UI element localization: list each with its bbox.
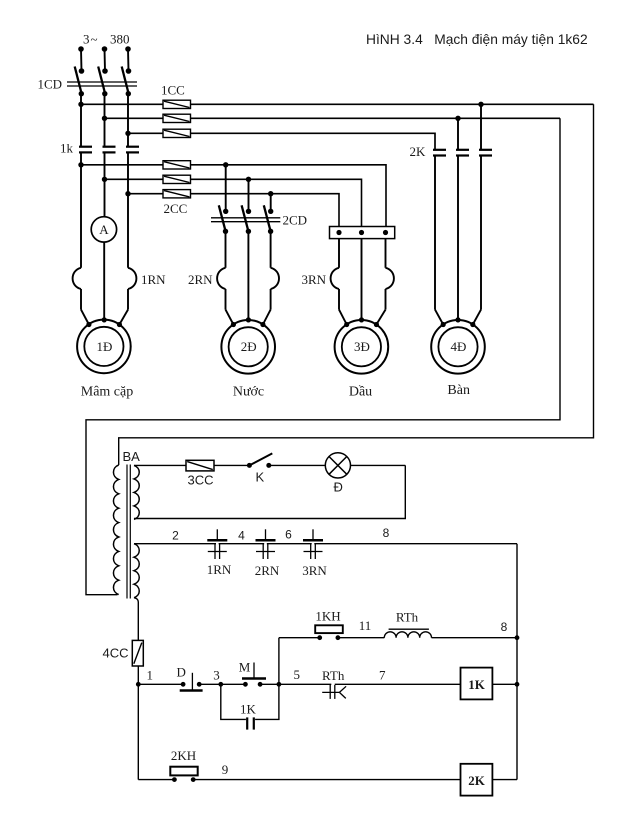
wire main control row: [138, 682, 517, 687]
svg-text:1RN: 1RN: [207, 562, 232, 577]
svg-text:2RN: 2RN: [188, 272, 213, 287]
svg-text:RTh: RTh: [396, 610, 419, 625]
node numbers 1 3 5 7: [147, 667, 386, 683]
ammeter A: [91, 217, 116, 242]
svg-text:~: ~: [91, 32, 98, 47]
supply label 3~ 380: [83, 32, 130, 47]
wire control line 2-4-6-8: [134, 543, 517, 545]
limit switch 1KH: [315, 609, 371, 641]
thermal heater 1RN left: [73, 268, 89, 325]
contact 3RN NC: [302, 529, 327, 578]
wire 4CC to rail node 1: [136, 666, 141, 687]
svg-text:3RN: 3RN: [302, 563, 327, 578]
svg-text:7: 7: [379, 668, 386, 683]
wire phase C upper: [125, 94, 130, 147]
svg-text:8: 8: [501, 620, 508, 634]
svg-text:2RN: 2RN: [255, 563, 280, 578]
wire 2K feeders: [458, 104, 481, 150]
svg-text:11: 11: [359, 618, 372, 633]
wire 2K coil to rail: [492, 779, 517, 781]
fuse 2CC b: [105, 175, 191, 183]
svg-text:M: M: [239, 660, 251, 675]
thermal heater 3RN right: [376, 268, 394, 325]
transformer BA secondary upper: [134, 465, 139, 519]
contactor 2K contacts: [410, 144, 493, 159]
svg-text:6: 6: [285, 528, 292, 542]
svg-text:3CC: 3CC: [187, 473, 213, 488]
svg-text:3: 3: [83, 32, 90, 47]
coil 1K: [461, 668, 493, 700]
wire phase B upper: [102, 94, 107, 147]
supply terminal L3: [125, 46, 131, 74]
thermal heater 2RN left: [188, 268, 233, 325]
svg-text:2KH: 2KH: [171, 748, 196, 763]
svg-text:4CC: 4CC: [102, 646, 128, 661]
wire outer frame to BA primary top: [119, 104, 594, 465]
coil 2K: [461, 764, 493, 796]
supply terminal L1: [78, 46, 84, 74]
button M NO: [239, 660, 266, 687]
wire bus3 to 2K: [191, 133, 436, 150]
fuse 1CC c: [128, 83, 191, 138]
svg-text:D: D: [177, 665, 186, 680]
svg-text:2CD: 2CD: [283, 213, 308, 228]
svg-text:2K: 2K: [468, 773, 486, 788]
svg-text:Dầu: Dầu: [349, 385, 372, 400]
svg-text:1: 1: [147, 668, 154, 683]
thermal heater 2RN right: [263, 268, 279, 325]
contact 1K self-hold: [221, 684, 279, 729]
wire 2cc bus2: [191, 177, 362, 227]
svg-text:RTh: RTh: [322, 668, 345, 683]
fuse 2CC a: [81, 161, 191, 169]
svg-text:1CC: 1CC: [161, 83, 185, 98]
contactor 1k contacts: [60, 141, 139, 156]
wire left rail to bottom row: [138, 684, 174, 779]
contact 2RN NC: [255, 529, 280, 578]
wire 2cc bus1: [191, 162, 387, 226]
wire riser node5 to 1KH row: [278, 638, 280, 685]
svg-text:Nước: Nước: [233, 385, 264, 400]
lamp D: [325, 453, 350, 495]
switch 1CD: [38, 67, 138, 97]
wire phase C mid: [125, 152, 130, 267]
wire 4D legs: [435, 156, 481, 325]
motor 3D: [335, 317, 389, 399]
terminal block 3D: [330, 227, 395, 239]
svg-text:1KH: 1KH: [315, 609, 340, 624]
wire phase B mid: [102, 152, 107, 216]
thermal heater 1RN right: [119, 268, 166, 325]
svg-text:1Đ: 1Đ: [96, 339, 112, 354]
transformer BA secondary lower: [134, 544, 139, 641]
svg-text:BA: BA: [123, 449, 141, 464]
thermal heater 3RN left: [301, 268, 346, 325]
fuse 1CC a: [81, 100, 191, 108]
wire 2KH to 2K coil: [193, 779, 460, 781]
wire 1KH row: [279, 637, 517, 639]
svg-text:5: 5: [293, 667, 300, 682]
fuse 3CC: [186, 460, 214, 487]
svg-text:Bàn: Bàn: [447, 383, 470, 398]
svg-text:K: K: [255, 470, 264, 485]
wire lamp row: [134, 464, 405, 466]
wire inner frame to BA primary bottom: [86, 118, 560, 594]
svg-text:1K: 1K: [240, 702, 257, 717]
svg-text:8: 8: [383, 526, 390, 540]
switch 2CD: [211, 165, 307, 234]
switch K: [247, 453, 272, 484]
wire phase A upper: [78, 94, 83, 147]
motor 1D: [77, 317, 133, 399]
limit switch 2KH: [170, 748, 228, 782]
fuse 2CC c: [128, 190, 191, 216]
svg-text:3Đ: 3Đ: [354, 339, 370, 354]
svg-text:2Đ: 2Đ: [241, 339, 257, 354]
supply terminal L2: [102, 46, 108, 74]
svg-text:4Đ: 4Đ: [451, 339, 467, 354]
wire 3D legs: [339, 239, 386, 320]
contact RTh NC timed: [322, 668, 346, 699]
transformer core: [127, 465, 130, 599]
wire bus1 to right frame: [191, 102, 594, 107]
svg-text:3RN: 3RN: [301, 272, 326, 287]
svg-text:9: 9: [222, 762, 229, 777]
coil RTh inductor: [384, 610, 507, 638]
svg-text:Mâm cặp: Mâm cặp: [81, 385, 133, 400]
fuse 1CC b: [105, 114, 191, 122]
wire bus2 to right frame: [191, 116, 561, 121]
svg-text:2: 2: [172, 529, 179, 543]
svg-text:1K: 1K: [468, 677, 486, 692]
wire lamp loop return: [134, 465, 405, 518]
wire 2cc bus3: [191, 191, 340, 227]
svg-text:2K: 2K: [410, 144, 427, 159]
wire right rail: [515, 544, 520, 780]
fuse 4CC: [102, 640, 143, 666]
svg-text:HìNH 3.4 Mạch điện máy tiện: HìNH 3.4 Mạch điện máy tiện 1k62: [366, 32, 588, 47]
svg-text:1k: 1k: [60, 141, 74, 156]
node numbers 2 4 6 8: [172, 526, 390, 543]
motor 4D: [431, 317, 485, 398]
wire phase A mid: [78, 152, 83, 267]
svg-text:Đ: Đ: [334, 480, 343, 495]
svg-text:3: 3: [213, 668, 220, 683]
button D NC: [177, 665, 203, 691]
motor 2D: [221, 317, 275, 399]
wire 2D legs: [226, 231, 271, 320]
svg-text:380: 380: [110, 32, 130, 47]
contact 1RN NC: [207, 529, 232, 577]
svg-text:A: A: [99, 222, 109, 237]
wire ammeter to motor 1D: [103, 242, 105, 320]
svg-text:4: 4: [238, 529, 245, 543]
svg-text:1CD: 1CD: [38, 77, 63, 92]
svg-text:1RN: 1RN: [141, 272, 166, 287]
transformer BA primary winding: [113, 449, 140, 595]
svg-text:2CC: 2CC: [164, 201, 188, 216]
